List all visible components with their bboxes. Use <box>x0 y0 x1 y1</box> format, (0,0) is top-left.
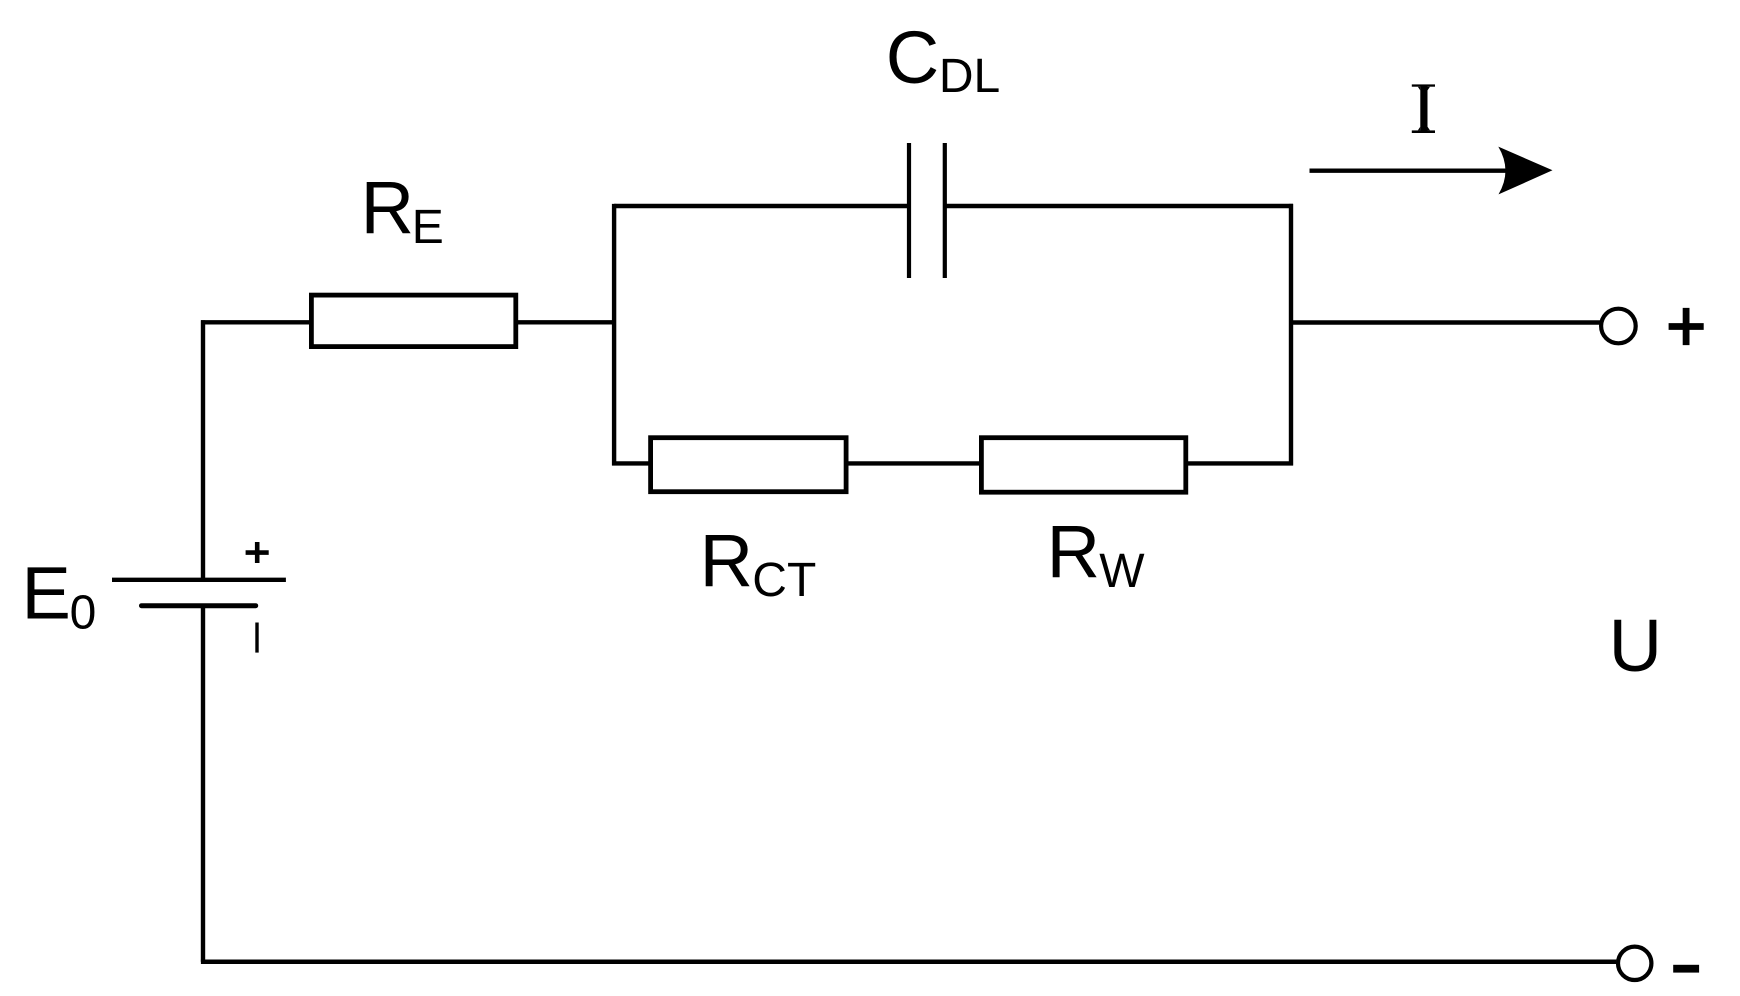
label E0 <box>22 552 97 640</box>
label CDL <box>886 16 1000 103</box>
capacitor CDL left plate <box>907 143 911 278</box>
svg-text:0: 0 <box>70 587 97 640</box>
capacitor CDL right plate <box>943 143 947 278</box>
positive terminal circle <box>1601 309 1636 344</box>
wire: top-left horizontal from left branch to RE <box>201 320 313 324</box>
svg-text:R: R <box>361 166 414 249</box>
current arrow shaft <box>1310 168 1508 172</box>
svg-text:C: C <box>886 16 939 99</box>
battery E0 bottom plate (-) <box>142 603 256 608</box>
battery minus polarity tick <box>255 623 258 653</box>
svg-text:CT: CT <box>752 554 816 607</box>
label RE <box>361 166 444 254</box>
current arrow head <box>1498 147 1552 195</box>
negative terminal circle <box>1618 947 1651 980</box>
svg-text:E: E <box>412 201 444 254</box>
resistor RW <box>981 438 1185 493</box>
wire: left vertical lower (battery bottom plate to bottom wire) <box>201 605 205 961</box>
wire: parallel block top edge left segment to capacitor <box>614 204 909 208</box>
minus terminal label <box>1673 965 1699 973</box>
svg-text:U: U <box>1609 604 1662 687</box>
resistor RE <box>311 295 515 347</box>
wire: bottom branch right segment from RW <box>1185 461 1293 465</box>
battery E0 top plate (+) <box>112 578 286 582</box>
svg-text:DL: DL <box>939 50 1000 103</box>
svg-text:R: R <box>700 519 753 602</box>
wire: bottom branch between RCT and RW <box>847 461 982 465</box>
svg-text:W: W <box>1099 545 1145 598</box>
label U (voltage) <box>1609 604 1662 687</box>
wire: output to positive terminal <box>1291 320 1600 324</box>
plus terminal label <box>1669 308 1704 345</box>
svg-text:R: R <box>1047 510 1100 593</box>
label RCT <box>700 519 817 607</box>
resistor RCT <box>651 438 847 492</box>
label I (current) <box>1412 84 1435 133</box>
label RW <box>1047 510 1146 598</box>
wire: bottom horizontal to negative terminal <box>201 960 1617 965</box>
wire: left vertical upper (node to battery top plate) <box>201 320 205 579</box>
wire: parallel block top edge right segment from capacitor <box>945 204 1293 208</box>
wire: parallel block right vertical edge <box>1289 204 1293 466</box>
wire: RE to parallel block <box>515 320 616 324</box>
battery plus polarity mark <box>246 542 269 563</box>
svg-text:E: E <box>22 552 71 635</box>
wire: parallel block left vertical edge <box>612 204 616 466</box>
wire: bottom branch left segment to RCT <box>612 461 652 465</box>
